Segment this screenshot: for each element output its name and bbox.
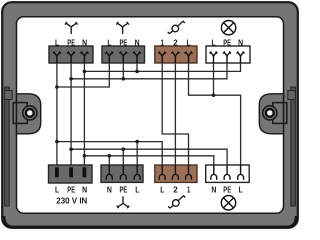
- wire top lamp L drop: [213, 63, 215, 95]
- svg-text:N: N: [135, 38, 140, 47]
- svg-text:PE: PE: [120, 185, 128, 194]
- wire PE feed: [71, 149, 227, 165]
- svg-text:N: N: [82, 38, 87, 47]
- terminal block B1 top feed-through: [49, 46, 93, 63]
- label S2: [107, 185, 139, 194]
- svg-text:N: N: [82, 185, 87, 194]
- wire switched line from switch L to lamps: [189, 63, 241, 165]
- lamp symbol below S4: [221, 196, 235, 210]
- label B1: [55, 38, 87, 47]
- wire PE rail: [71, 63, 227, 79]
- lamp symbol above B4: [221, 21, 235, 35]
- terminal block S3 bottom switch socket (brown): [155, 165, 197, 182]
- svg-text:N: N: [238, 38, 243, 47]
- svg-text:230 V IN: 230 V IN: [56, 196, 87, 205]
- svg-text:L: L: [212, 38, 216, 47]
- left latch tongue: [13, 94, 41, 134]
- wire bottom socket N drop: [108, 156, 110, 165]
- svg-text:PE: PE: [223, 38, 231, 47]
- left mounting strip: [5, 87, 13, 206]
- wire block2 PE drop: [122, 63, 124, 79]
- wire supply PE vertical: [70, 63, 72, 165]
- svg-text:PE: PE: [67, 38, 75, 47]
- svg-text:PE: PE: [67, 185, 75, 194]
- svg-text:2: 2: [173, 38, 178, 47]
- branch symbol above B1: [65, 22, 78, 34]
- wire supply N vertical: [83, 63, 85, 165]
- wire L rail to block2: [57, 63, 109, 87]
- wire supply L vertical: [56, 63, 58, 165]
- terminal block B2 top feed-through: [102, 46, 145, 63]
- svg-text:L: L: [135, 185, 139, 194]
- switch symbol above B3: [168, 21, 185, 34]
- terminal block B3 top switch socket (brown): [155, 46, 197, 63]
- svg-text:L: L: [239, 185, 243, 194]
- wire bottom socket PE drop: [122, 149, 124, 165]
- svg-text:1: 1: [187, 185, 191, 194]
- label S4: [211, 185, 242, 194]
- right mounting strip: [288, 87, 296, 206]
- branch symbol below S2: [117, 196, 130, 208]
- svg-text:PE: PE: [223, 185, 231, 194]
- switch symbol below S3: [168, 195, 185, 208]
- terminal block S2 bottom feed-through (gray): [101, 165, 143, 182]
- svg-text:1: 1: [161, 38, 165, 47]
- label B2: [107, 38, 139, 47]
- housing bottom shadow edge: [4, 216, 296, 227]
- svg-text:2: 2: [173, 185, 178, 194]
- wire traveler 1: [162, 63, 188, 165]
- svg-text:N: N: [107, 185, 112, 194]
- wire L feed to bottom switch: [57, 142, 162, 165]
- branch symbol above B2: [116, 22, 129, 34]
- inner white area: [17, 17, 284, 213]
- svg-text:L: L: [55, 38, 59, 47]
- terminal block S1 supply 230V IN (gray, solid pins): [49, 165, 93, 183]
- junction dots: [55, 70, 215, 158]
- svg-text:L: L: [187, 38, 191, 47]
- label B4: [212, 38, 244, 47]
- wire N feed: [84, 156, 213, 165]
- wire N rail: [84, 63, 240, 71]
- svg-text:PE: PE: [120, 38, 128, 47]
- terminal block B4 top lamp socket (white): [206, 46, 250, 63]
- label S1: [55, 185, 87, 205]
- svg-text:N: N: [211, 185, 216, 194]
- wire block2 N drop: [136, 63, 138, 71]
- svg-text:L: L: [160, 185, 164, 194]
- wire traveler 2: [174, 63, 176, 165]
- label B3: [161, 38, 191, 47]
- right latch tongue: [259, 94, 287, 134]
- svg-text:L: L: [55, 185, 59, 194]
- label S3: [160, 185, 190, 194]
- wire bottom socket L drop: [136, 142, 138, 165]
- svg-text:L: L: [107, 38, 111, 47]
- terminal block S4 bottom lamp socket (white): [206, 165, 250, 182]
